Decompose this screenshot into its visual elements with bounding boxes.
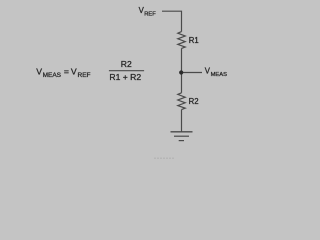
svg-text:REF: REF	[78, 72, 91, 79]
svg-text:REF: REF	[144, 11, 156, 17]
svg-text:R1 + R2: R1 + R2	[109, 72, 141, 82]
svg-text:V: V	[71, 66, 77, 76]
svg-text:=: =	[64, 66, 69, 76]
svg-text:R2: R2	[121, 59, 132, 69]
svg-text:R1: R1	[189, 36, 199, 45]
svg-text:MEAS: MEAS	[211, 72, 228, 78]
svg-text:V: V	[36, 66, 42, 76]
svg-text:MEAS: MEAS	[43, 72, 62, 79]
svg-text:R2: R2	[189, 97, 199, 106]
